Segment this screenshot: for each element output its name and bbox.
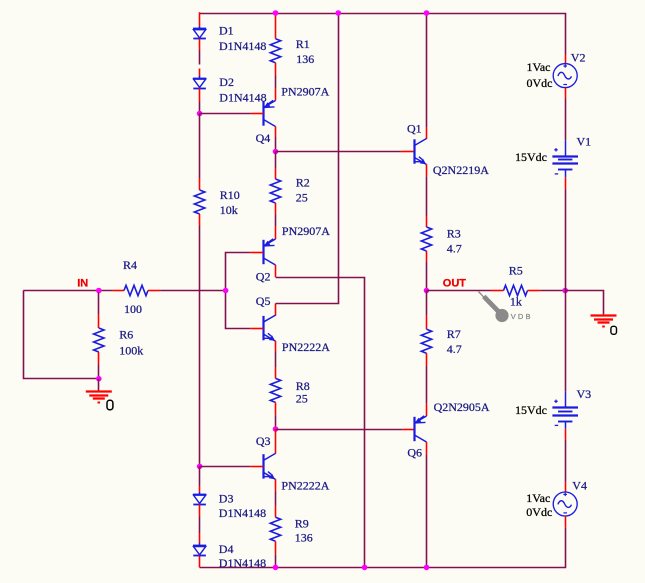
wire stub above D1 xyxy=(199,12,201,26)
wire R7 bottom stub xyxy=(426,353,428,366)
wire ground stub IN xyxy=(98,379,100,391)
resistor R10 xyxy=(194,190,204,214)
svg-text:R3: R3 xyxy=(447,226,461,240)
svg-text:Q2N2905A: Q2N2905A xyxy=(434,400,490,414)
wire V4 to bottom rail xyxy=(565,528,567,568)
wire R2 to Q2 xyxy=(275,215,277,227)
diode D4 xyxy=(193,543,206,556)
source V3 (15Vdc battery) xyxy=(552,392,578,429)
wire D1-D2 segment xyxy=(199,50,201,65)
wire Q6 collector stub xyxy=(426,442,428,455)
junction top rail / Q5 collector line xyxy=(336,10,342,16)
wire V4 top stub xyxy=(565,482,567,492)
node OUT xyxy=(424,288,430,294)
svg-text:1Vac: 1Vac xyxy=(527,60,551,74)
svg-text:4.7: 4.7 xyxy=(447,342,462,356)
wire V4 bottom stub xyxy=(565,516,567,528)
wire supply node to ground xyxy=(565,291,603,315)
svg-text:V1: V1 xyxy=(577,135,592,149)
wire R6 bottom stub xyxy=(98,352,100,365)
svg-text:4.7: 4.7 xyxy=(447,241,462,255)
diode D2 xyxy=(193,76,206,89)
svg-text:Q2N2219A: Q2N2219A xyxy=(433,163,489,177)
wire Q5 emitter stub xyxy=(275,341,277,352)
svg-text:25: 25 xyxy=(296,191,308,205)
wire node to D3 xyxy=(199,466,201,486)
resistor R6 xyxy=(94,328,104,352)
svg-text:R6: R6 xyxy=(119,328,133,342)
wire IN node to R6 xyxy=(98,293,100,315)
wire R9 to bottom rail xyxy=(275,554,277,567)
wire R1 bottom stub xyxy=(275,63,277,76)
wire Q1 base stub xyxy=(401,151,414,153)
wire R8 top stub xyxy=(275,367,277,378)
resistor R1 xyxy=(270,39,280,63)
junction D2/R10/Q4-base node xyxy=(197,111,203,117)
svg-text:PN2222A: PN2222A xyxy=(282,340,330,354)
wire top supply rail xyxy=(200,13,567,15)
wire Q5 collector to top rail xyxy=(276,12,339,303)
wire R1 top stub xyxy=(275,12,277,39)
source V4 (1Vac 0Vdc) xyxy=(553,492,577,516)
svg-text:IN: IN xyxy=(77,278,88,290)
wire Q5 collector corner xyxy=(275,304,277,316)
svg-text:1Vac: 1Vac xyxy=(526,491,550,505)
wire Q2 collector run xyxy=(276,278,365,568)
ground 0 (input) xyxy=(86,392,112,403)
svg-text:25: 25 xyxy=(296,391,308,405)
wire Q3 base stub xyxy=(250,466,263,468)
transistor Q4 xyxy=(264,100,276,126)
wire Q1 collector stub xyxy=(426,128,428,139)
diode D1 xyxy=(193,26,206,38)
junction R5 / supply column xyxy=(562,288,568,294)
wire D3 node to Q3 base xyxy=(200,466,251,468)
wire Q3 to R9 xyxy=(275,492,277,506)
svg-text:D1: D1 xyxy=(219,23,234,37)
svg-text:100k: 100k xyxy=(119,344,143,358)
svg-text:R1: R1 xyxy=(296,37,310,51)
wire below D1 xyxy=(199,39,201,50)
svg-text:D1N4148: D1N4148 xyxy=(219,91,266,105)
wire V1 bottom stub xyxy=(565,177,567,189)
svg-text:V3: V3 xyxy=(577,387,592,401)
wire V3 bottom stub xyxy=(565,429,567,440)
transistor Q2 xyxy=(264,239,276,265)
wire R5 right stub xyxy=(528,290,541,292)
wire input node to Q2 base xyxy=(226,253,251,291)
svg-text:0Vdc: 0Vdc xyxy=(526,505,552,519)
wire Q5 base stub xyxy=(250,328,263,330)
source V2 (1Vac 0Vdc) xyxy=(553,64,577,88)
wire Q4 base stub xyxy=(251,113,263,115)
wire Q1 emitter stub xyxy=(426,164,428,176)
transistor Q6 xyxy=(415,416,427,442)
source V1 (15Vdc battery) xyxy=(552,140,578,177)
wire IN node left run xyxy=(23,290,112,292)
diode D3 xyxy=(193,492,206,505)
wire top rail to V2 xyxy=(565,13,567,55)
junction R6 / loop / ground xyxy=(96,376,102,382)
wire R5 to supply node xyxy=(540,290,565,292)
svg-text:15Vdc: 15Vdc xyxy=(515,403,547,417)
wire R3 to OUT xyxy=(426,262,428,291)
junction bottom rail / R9 xyxy=(273,565,279,571)
svg-text:V4: V4 xyxy=(572,479,587,493)
junction Q2/Q5 base branch node xyxy=(223,288,229,294)
wire Q4 collector to Q1 base xyxy=(276,151,401,153)
resistor R5 xyxy=(504,285,528,295)
wire D3-D4 segment xyxy=(199,517,201,534)
wire R9 bottom stub xyxy=(275,541,277,554)
wire R8 to node xyxy=(275,415,277,429)
wire Q1 to R3 xyxy=(426,176,428,216)
wire supply node to V3 xyxy=(565,291,567,392)
svg-text:D4: D4 xyxy=(219,542,234,556)
resistor R2 xyxy=(270,179,280,203)
ground 0 (supply) xyxy=(591,316,617,327)
wire Q2 emitter stub xyxy=(275,226,277,239)
junction Q4 collector / Q1 base node xyxy=(273,149,279,155)
node IN xyxy=(96,288,102,294)
wire Q4 collector stub xyxy=(275,126,277,137)
wire Q6 collector to bottom rail xyxy=(426,455,428,567)
wire below D3 xyxy=(199,504,201,516)
wire R3 top stub xyxy=(426,216,428,227)
resistor R7 xyxy=(421,329,431,353)
junction bottom rail / Q6 collector xyxy=(424,565,430,571)
svg-text:R2: R2 xyxy=(296,176,310,190)
svg-text:R9: R9 xyxy=(295,517,309,531)
svg-text:R10: R10 xyxy=(220,188,240,202)
wire D2 to node xyxy=(199,102,201,114)
label 0 (supply ground) xyxy=(611,326,617,334)
svg-text:Q1: Q1 xyxy=(407,122,422,136)
wire R1 to Q4 xyxy=(275,76,277,89)
wire R10 bottom stub xyxy=(199,214,201,226)
svg-text:Q6: Q6 xyxy=(407,446,422,460)
wire Q3 collector stub xyxy=(275,429,277,454)
wire Q2 collector stub xyxy=(275,265,277,277)
wire R3 bottom stub xyxy=(426,251,428,262)
wire Q4 collector to node xyxy=(275,137,277,152)
transistor Q5 xyxy=(264,315,276,341)
transistor Q3 xyxy=(264,453,276,479)
resistor R3 xyxy=(421,227,431,251)
wire input loop xyxy=(24,291,99,379)
wire R6 top stub xyxy=(98,314,100,328)
transistor Q1 xyxy=(415,139,427,165)
wire above D2 xyxy=(199,69,201,77)
wire R8 bottom stub xyxy=(275,402,277,415)
wire OUT to R5 xyxy=(427,290,492,292)
wire V2 top stub xyxy=(565,55,567,65)
wire Q5 to R8 xyxy=(275,352,277,368)
wire node to R10 xyxy=(199,114,201,179)
wire R7 top stub xyxy=(426,316,428,330)
wire Q6 base stub xyxy=(402,429,414,431)
wire R2 bottom stub xyxy=(275,203,277,215)
wire R4 to branch node xyxy=(160,290,226,292)
wire node to Q6 base xyxy=(276,429,403,431)
svg-text:D1N4148: D1N4148 xyxy=(219,506,266,520)
svg-text:V2: V2 xyxy=(571,51,586,65)
junction bottom rail / Q2 collector line xyxy=(362,565,368,571)
wire R9 top stub xyxy=(275,506,277,518)
wire Q4 emitter stub xyxy=(275,88,277,101)
wire OUT to R7 xyxy=(426,291,428,316)
wire Q3 emitter stub xyxy=(275,479,277,491)
junction R8/Q3 collector/Q6 base node xyxy=(273,426,279,432)
wire D2 node to Q4 base xyxy=(200,113,251,115)
svg-text:R4: R4 xyxy=(123,258,137,272)
svg-text:PN2907A: PN2907A xyxy=(282,224,330,238)
wire R4 left stub xyxy=(113,290,124,292)
svg-text:1k: 1k xyxy=(510,295,522,309)
wire top rail to Q1 xyxy=(426,12,428,127)
wire R5 left stub xyxy=(491,290,504,292)
wire R4 right stub xyxy=(148,290,160,292)
svg-text:D2: D2 xyxy=(219,75,234,89)
wire R6 to ground node xyxy=(98,365,100,379)
label 0 (input ground) xyxy=(107,400,113,409)
svg-text:10k: 10k xyxy=(220,203,238,217)
wire R7 to Q6 xyxy=(426,366,428,403)
svg-text:Q2: Q2 xyxy=(256,270,271,284)
resistor R4 xyxy=(124,285,148,295)
wire R10 to Q3-base node xyxy=(199,226,201,467)
svg-text:PN2907A: PN2907A xyxy=(281,85,329,99)
wire above D3 xyxy=(199,486,201,492)
junction top rail / Q1 xyxy=(424,10,430,16)
wire V1 to supply node xyxy=(565,190,567,291)
wire Q2 base stub xyxy=(250,252,263,254)
wire node to R2 xyxy=(275,152,277,169)
svg-text:Q5: Q5 xyxy=(256,294,271,308)
wire below D4 xyxy=(199,556,201,568)
wire V2 bottom stub xyxy=(565,88,567,99)
wire Q6 emitter stub xyxy=(426,403,428,416)
wire above D4 xyxy=(199,533,201,543)
wire below D2 xyxy=(199,88,201,101)
svg-text:Q3: Q3 xyxy=(256,434,271,448)
svg-text:D1N4148: D1N4148 xyxy=(219,556,266,570)
wire input node to Q5 base xyxy=(226,291,251,329)
probe VDB marker xyxy=(478,292,508,323)
wire V2 to V1 xyxy=(565,99,567,141)
svg-text:100: 100 xyxy=(124,302,142,316)
svg-text:R7: R7 xyxy=(447,327,461,341)
svg-text:0Vdc: 0Vdc xyxy=(527,76,553,90)
wire R2 top stub xyxy=(275,168,277,179)
wire R10 top stub xyxy=(199,178,201,190)
svg-text:136: 136 xyxy=(295,530,313,544)
svg-text:D3: D3 xyxy=(219,492,234,506)
junction top rail / R1 xyxy=(273,10,279,16)
resistor R9 xyxy=(270,517,280,541)
wire V3 to V4 xyxy=(565,440,567,482)
svg-text:PN2222A: PN2222A xyxy=(281,479,329,493)
svg-text:VDB: VDB xyxy=(511,312,533,321)
svg-text:D1N4148: D1N4148 xyxy=(219,39,266,53)
svg-text:Q4: Q4 xyxy=(256,131,271,145)
junction R10/D3/Q3-base node xyxy=(197,464,203,470)
wire bottom supply rail xyxy=(200,567,567,569)
resistor R8 xyxy=(270,378,280,402)
svg-text:OUT: OUT xyxy=(443,278,467,290)
svg-text:15Vdc: 15Vdc xyxy=(515,150,547,164)
svg-text:136: 136 xyxy=(296,52,314,66)
svg-text:R5: R5 xyxy=(509,264,523,278)
